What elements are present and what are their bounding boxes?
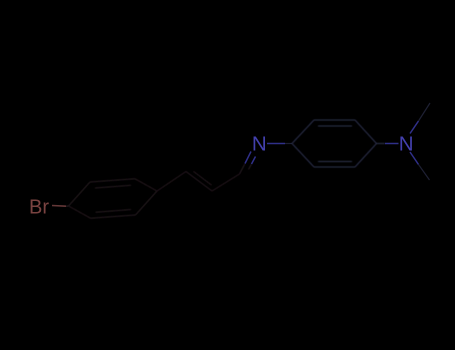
N-CH3 lower bond blue half bbox=[410, 152, 419, 165]
N-CH3 lower bond dark half bbox=[419, 165, 430, 181]
ring2 inner double bond bottom bbox=[318, 161, 352, 163]
bond C2-C3 bbox=[212, 174, 240, 191]
N-CH3 upper bond dark half bbox=[419, 103, 431, 121]
C1=C2 second stroke bbox=[193, 171, 211, 185]
svg-text:N: N bbox=[399, 133, 414, 156]
ring1 inner double bond top bbox=[95, 185, 131, 188]
C3=N dark half bbox=[240, 164, 246, 175]
bond ring1-C1 bbox=[157, 172, 186, 192]
benzene ring 1 (left) bbox=[69, 179, 158, 218]
bond ring2-N blue half bbox=[385, 143, 399, 145]
vinyl chain bbox=[157, 164, 252, 192]
N-CH3 upper bond blue half bbox=[410, 121, 419, 134]
bond Br-ring dark half bbox=[66, 205, 69, 207]
bond Br-ring bbox=[52, 205, 66, 208]
bond C1=C2 bbox=[186, 172, 212, 192]
bond ring2-N dark half bbox=[377, 143, 386, 145]
C3=N blue half bbox=[245, 152, 256, 165]
benzene ring 2 (right) bbox=[292, 120, 385, 167]
bond N-ring2 dark half bbox=[285, 143, 292, 145]
bond N-ring2 blue half bbox=[267, 143, 285, 145]
svg-text:Br: Br bbox=[29, 197, 49, 219]
ring2 inner double bond top bbox=[318, 125, 352, 127]
svg-text:N: N bbox=[252, 133, 267, 156]
ring1 inner double bond bottom bbox=[96, 210, 132, 213]
